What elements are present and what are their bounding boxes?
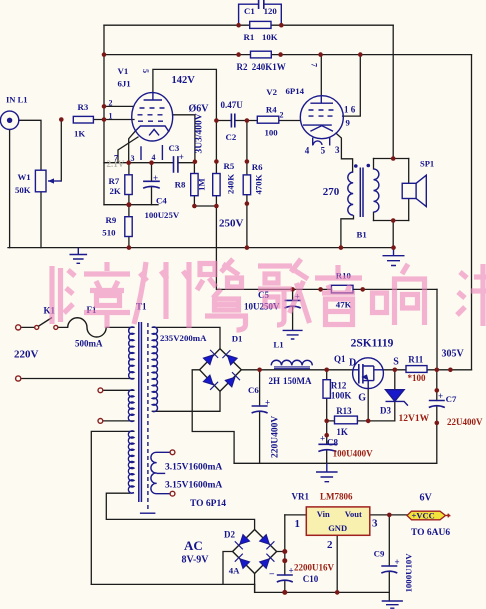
wire rail A top feedback (104, 24, 393, 26)
svg-text:142V: 142V (172, 75, 196, 86)
svg-text:6P14: 6P14 (286, 86, 305, 96)
svg-text:C6: C6 (248, 385, 259, 395)
junction dots cathode row (126, 160, 131, 165)
svg-text:270: 270 (323, 186, 340, 198)
svg-text:500mA: 500mA (75, 339, 103, 349)
wire input jack to pot (19, 120, 41, 170)
svg-text:100K: 100K (331, 391, 352, 401)
wire rail B screen/plate supply (104, 54, 472, 56)
wire VR1 pin1 (285, 514, 307, 516)
svg-text:C1: C1 (244, 6, 255, 16)
svg-text:IN L1: IN L1 (6, 95, 28, 105)
svg-text:100U25V: 100U25V (145, 210, 180, 220)
capacitor C9 (381, 566, 397, 573)
capacitor C10 (277, 575, 293, 582)
wire C2 row plate to V2 grid (216, 120, 300, 122)
svg-text:R9: R9 (106, 215, 117, 225)
wire HV secondary bottom to bridge (152, 391, 220, 411)
watermark partial char right edge (457, 264, 486, 326)
svg-text:240K1W: 240K1W (252, 62, 286, 72)
svg-text:2: 2 (327, 539, 333, 551)
svg-text:4A: 4A (229, 566, 240, 576)
svg-text:+: + (289, 566, 294, 576)
wire D2 left corner drop (223, 552, 233, 585)
terminal middle tap top (98, 388, 103, 393)
switch K1 (35, 318, 58, 330)
capacitor C8 (318, 444, 336, 451)
wire 220V bottom to primary bottom (21, 378, 134, 380)
svg-text:C2: C2 (226, 132, 237, 142)
speaker SP1 (402, 175, 426, 206)
resistor R4 (257, 116, 279, 123)
wire output node row top (374, 158, 409, 160)
svg-text:220V: 220V (14, 349, 39, 361)
svg-text:R11: R11 (408, 355, 424, 365)
svg-text:4: 4 (305, 146, 310, 156)
svg-text:Vout: Vout (345, 509, 362, 519)
svg-text:470K: 470K (254, 174, 264, 194)
T1 middle tap winding (128, 390, 133, 422)
junction dots R6 (245, 159, 250, 164)
wire C3 to R8 node (178, 162, 195, 164)
resistor R9 (125, 217, 132, 237)
junction dots C7 (435, 388, 440, 393)
capacitor C3 (174, 156, 178, 173)
zener diode D3 (386, 390, 408, 406)
svg-text:AC: AC (184, 538, 203, 553)
wire left vertical from rail A down (103, 25, 105, 205)
wire output node row bottom (374, 220, 409, 222)
junction dots V1 grid area (102, 104, 107, 109)
junction dots rail B (102, 52, 107, 57)
svg-text:W1: W1 (18, 172, 31, 182)
svg-text:2K: 2K (110, 186, 121, 196)
bridge rectifier D1 (200, 349, 242, 392)
wire V2 pin3 to B1 primary (336, 133, 353, 172)
svg-text:C8: C8 (327, 438, 338, 448)
wire 250V node row R10 (217, 288, 437, 290)
wire V1 pin2 (104, 105, 133, 107)
svg-text:C7: C7 (446, 394, 457, 404)
svg-text:220U400V: 220U400V (271, 416, 281, 458)
junction dots C10 riser (282, 549, 287, 554)
wire DC minus rail bottom (255, 584, 390, 592)
wire R10 node down to 305V rail (436, 289, 438, 369)
wire main DC rail bridge to Q1 (241, 369, 352, 371)
svg-text:LM7806: LM7806 (320, 492, 353, 502)
svg-text:TO 6AU6: TO 6AU6 (411, 528, 450, 538)
svg-text:+: + (395, 557, 400, 567)
wire C7 stubs (436, 370, 438, 464)
svg-text:4: 4 (152, 153, 156, 162)
svg-text:2: 2 (109, 99, 113, 108)
svg-text:3: 3 (335, 145, 340, 155)
svg-text:5: 5 (141, 69, 150, 73)
svg-text:2200U16V: 2200U16V (294, 563, 334, 573)
wire pot wiper riser (60, 120, 62, 182)
wire jack sleeve down (9, 130, 11, 248)
wire middle winding taps (103, 390, 134, 421)
svg-text:D3: D3 (380, 406, 391, 416)
svg-text:9: 9 (346, 118, 351, 128)
svg-text:V2: V2 (266, 87, 277, 97)
svg-text:100: 100 (265, 128, 279, 138)
wire Q1 source to 305V to right rail (383, 369, 471, 371)
wire R13 row (327, 420, 395, 422)
wire speaker bottom (408, 199, 410, 221)
svg-text:R7: R7 (109, 176, 120, 186)
svg-text:Q1: Q1 (334, 354, 346, 364)
svg-text:C4: C4 (156, 196, 167, 206)
svg-text:12V1W: 12V1W (399, 414, 430, 424)
svg-text:3.15V1600mA: 3.15V1600mA (165, 463, 222, 473)
junction dots gate row (324, 419, 329, 424)
svg-text:L1: L1 (273, 340, 283, 350)
svg-text:50K: 50K (15, 185, 31, 195)
wire V2 plate pin7 riser (320, 55, 322, 96)
regulator VR1 LM7806 (306, 507, 370, 535)
junction dots DC rail (257, 368, 262, 373)
capacitor C1 (239, 0, 282, 25)
wire VR1 pin2 ground (336, 535, 338, 592)
wire V1 pin3 stub (129, 131, 135, 162)
ground near W1 (70, 248, 88, 264)
svg-text:0.47U: 0.47U (221, 100, 244, 110)
wire cathode row 2.1V (104, 162, 173, 164)
wire C8 stubs (326, 421, 328, 463)
svg-text:VR1: VR1 (292, 492, 310, 502)
svg-text:R5: R5 (224, 161, 235, 171)
svg-text:Ø6V: Ø6V (189, 104, 210, 115)
wire V1 pin7 stub (118, 137, 138, 163)
wire R3 to V1 pin1 (93, 119, 134, 121)
terminal middle tap bottom (98, 419, 103, 424)
svg-text:S: S (393, 357, 399, 368)
svg-text:R6: R6 (252, 162, 263, 172)
svg-text:1: 1 (295, 518, 301, 530)
svg-text:–: – (269, 568, 275, 578)
svg-text:+: + (179, 152, 184, 162)
svg-text:Vin: Vin (317, 509, 330, 519)
T1 core (139, 322, 156, 513)
resistor R3 (73, 116, 93, 123)
svg-text:V1: V1 (118, 66, 129, 76)
wire R7 stubs (128, 163, 130, 205)
resistor R11 (406, 366, 427, 373)
svg-text:6V: 6V (420, 493, 433, 504)
potentiometer W1 (35, 170, 61, 192)
junction dots R10 row (290, 287, 295, 292)
svg-text:D: D (349, 358, 356, 369)
wire D2 plus to C10 riser (277, 515, 285, 593)
capacitor C7 (429, 401, 445, 408)
svg-text:1K: 1K (74, 129, 85, 139)
T1 8V winding (128, 431, 133, 494)
svg-text:3: 3 (372, 518, 378, 530)
svg-text:240K: 240K (226, 174, 236, 194)
mosfet Q1 2SK1119 (353, 358, 384, 389)
svg-text:510: 510 (102, 228, 116, 238)
svg-text:B1: B1 (357, 230, 367, 240)
bridge rectifier D2 (233, 530, 277, 574)
svg-text:D2: D2 (224, 530, 235, 540)
wire V1 pin6 screen to C3 node (173, 115, 195, 162)
junction dots plate and C2 row (214, 118, 219, 123)
fuse F1 (68, 318, 107, 337)
svg-text:G: G (358, 393, 366, 404)
T1 HV secondary winding (152, 327, 157, 412)
wire pot bottom to ground rail (40, 192, 42, 248)
junction dots lower ground (335, 590, 340, 595)
resistor R1 (250, 21, 271, 28)
resistor R8 (191, 174, 198, 196)
capacitor C4 (143, 181, 160, 188)
pentode V2 6P14 (300, 96, 343, 146)
resistor R10 (331, 285, 353, 293)
terminal 220V top (16, 325, 21, 330)
svg-text:TO 6P14: TO 6P14 (190, 499, 226, 509)
svg-text:R3: R3 (78, 102, 89, 112)
wire bridge D1 minus to lower ground rail (192, 370, 234, 464)
svg-text:C10: C10 (303, 574, 319, 584)
wire 8V winding top long loop (91, 431, 134, 584)
svg-text:100U400V: 100U400V (333, 449, 373, 459)
wire 220V line to K1 (21, 326, 37, 328)
svg-text:2SK1119: 2SK1119 (351, 338, 394, 350)
watermark pink text row (52, 259, 486, 330)
svg-text:+: + (265, 398, 270, 408)
terminal heater top (170, 450, 175, 455)
terminal 220V bottom (16, 376, 21, 381)
ground under C9 (382, 601, 403, 608)
ground on lower rail at C8 (316, 463, 338, 481)
T1 heater winding (151, 452, 170, 493)
power transformer T1 primary winding (129, 327, 134, 379)
junction dots rail A (236, 23, 241, 28)
svg-text:305V: 305V (442, 349, 465, 360)
svg-text:R1: R1 (244, 32, 255, 42)
wire B1 secondary bottom stub (373, 212, 375, 220)
svg-text:5: 5 (321, 146, 326, 156)
wire V2 screen pin9 to rail B (343, 55, 361, 117)
svg-text:SP1: SP1 (420, 159, 434, 169)
junction dots ground rail (127, 245, 132, 250)
svg-text:GND: GND (328, 523, 347, 533)
wire B1 secondary top stub (373, 159, 375, 169)
svg-text:150MA: 150MA (283, 376, 312, 386)
power flag +VCC (407, 511, 450, 520)
svg-text:7: 7 (310, 63, 319, 67)
output transformer B1 (348, 164, 379, 217)
svg-text:D1: D1 (232, 334, 243, 344)
wire C9 stubs (388, 515, 390, 601)
svg-text:10K: 10K (262, 32, 278, 42)
wire V1 plate pin5 to R5 top (153, 69, 217, 173)
wire Q1 gate drop (367, 388, 369, 421)
wire AC rail bottom (91, 583, 254, 585)
capacitor C2 (231, 114, 234, 128)
svg-text:2H: 2H (269, 376, 281, 386)
svg-text:R8: R8 (175, 180, 186, 190)
wire ground rail upper (8, 247, 394, 249)
inductor L1 (271, 360, 312, 368)
svg-text:3.15V1600mA: 3.15V1600mA (165, 481, 222, 491)
resistor R12 (323, 380, 330, 399)
wire right rail down to 305V (471, 55, 473, 370)
junction dots R7 R9 (126, 202, 131, 207)
svg-text:235V200mA: 235V200mA (160, 333, 207, 343)
svg-text:3U3/400V: 3U3/400V (195, 113, 205, 153)
capacitor C6 (252, 406, 268, 413)
wire R8 stubs (194, 162, 216, 206)
resistor R2 (251, 51, 272, 58)
svg-text:R12: R12 (331, 381, 347, 391)
wire D3 stubs (394, 370, 396, 421)
svg-text:C9: C9 (374, 549, 385, 559)
svg-text:+: + (320, 434, 325, 444)
svg-text:2: 2 (280, 111, 284, 120)
wire R12 riser (326, 370, 328, 421)
svg-text:6J1: 6J1 (118, 79, 131, 89)
ground under C5 (283, 330, 303, 339)
svg-text:+: + (438, 391, 443, 401)
wire R9 stubs (128, 205, 130, 248)
wire D2 bottom corner drop (254, 574, 256, 593)
wire K1 to F1 to T1 primary (58, 326, 134, 328)
svg-text:1: 1 (109, 112, 113, 121)
wire C5 stubs (292, 289, 294, 330)
wire output bottom to ground rail (392, 159, 394, 248)
resistor R5 (213, 174, 220, 196)
triode V1 6J1 (132, 93, 173, 160)
terminal heater bottom (170, 491, 175, 496)
svg-text:1K: 1K (336, 427, 348, 437)
wire rail A down to output node (392, 25, 394, 158)
svg-text:1000U10V: 1000U10V (404, 553, 414, 593)
svg-text:R4: R4 (266, 105, 277, 115)
resistor R6 (243, 175, 250, 195)
wire VR1 pin3 to VCC flag (370, 514, 407, 516)
svg-text:7: 7 (114, 154, 118, 163)
wire HV secondary top to bridge (152, 327, 220, 349)
watermark partial char left edge (52, 266, 61, 324)
svg-text:8V-9V: 8V-9V (182, 555, 210, 566)
svg-text:1M: 1M (197, 178, 207, 191)
svg-text:+: + (153, 173, 158, 183)
wire NFB row to R7 bottom (104, 204, 158, 206)
svg-text:1 6: 1 6 (344, 105, 356, 115)
wire speaker top (408, 159, 410, 184)
svg-text:22U400V: 22U400V (447, 417, 483, 427)
capacitor C5 (285, 300, 301, 308)
junction dots output node (391, 156, 396, 161)
svg-text:250V: 250V (219, 218, 244, 230)
wire R6 grid leak riser (246, 121, 248, 248)
resistor R7 (125, 175, 132, 195)
svg-text:*100: *100 (408, 373, 427, 383)
svg-text:+VCC: +VCC (412, 511, 435, 521)
wire C6 stubs (259, 370, 261, 464)
input jack IN L1 (0, 111, 18, 129)
wire B1 primary bottom to ground (341, 216, 354, 248)
svg-text:R13: R13 (336, 406, 352, 416)
svg-text:R2: R2 (237, 62, 248, 72)
svg-text:3: 3 (131, 154, 135, 163)
ground under B1 speaker (383, 248, 405, 266)
resistor R13 (335, 416, 358, 424)
svg-text:120: 120 (264, 6, 278, 16)
wire lower ground rail (234, 462, 437, 464)
wire C4 stubs (151, 163, 153, 205)
wire R5 bottom through ground rail to 250V node (215, 196, 217, 290)
wire 8V winding bottom to D2 top (106, 493, 254, 529)
